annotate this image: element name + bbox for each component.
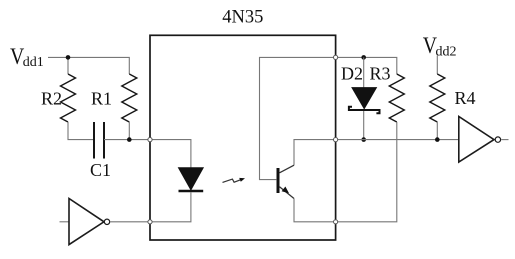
svg-text:D2: D2 (341, 64, 363, 84)
wire U1 output to pin2 (110, 221, 150, 223)
wire D2 cathode lead (363, 111, 365, 140)
pin 2 terminal (148, 220, 152, 224)
diode D2 schottky (349, 88, 380, 114)
node Vdd2 label (423, 33, 457, 60)
wire R2 bottom lead to C1 left plate (68, 122, 94, 140)
junction D2/output rail (361, 137, 366, 142)
wire Vdd2 lead to R4 (436, 56, 438, 75)
svg-text:dd1: dd1 (23, 55, 44, 70)
junction Vdd1/R2 (66, 55, 71, 60)
wire LED cathode to pin2 (150, 192, 191, 222)
wire pin1 to LED anode (150, 140, 191, 168)
wire pin6 rail to R3 top (336, 57, 397, 74)
wire C1 right plate to pin1 (104, 139, 150, 141)
pin 1 terminal (148, 138, 152, 142)
wire R1 bottom lead (128, 122, 130, 140)
svg-text:R1: R1 (91, 89, 112, 109)
pin 6 terminal (334, 55, 338, 59)
pin 5 terminal (334, 138, 338, 142)
LED emitter diode of 4N35 (179, 168, 204, 191)
wire U2 output stub (501, 139, 508, 141)
wire output rail pin5 to inverter U2 (336, 139, 459, 141)
wire R4 bottom lead (436, 122, 438, 140)
pin 4 terminal (334, 220, 338, 224)
IC body 4N35 optocoupler box (150, 35, 336, 240)
svg-text:R4: R4 (455, 88, 476, 108)
junction R1/C1 node (127, 137, 132, 142)
wire emitter to pin4 (294, 199, 336, 222)
resistor R1 (122, 74, 137, 122)
phototransistor Q1 (278, 165, 294, 198)
junction pin6/D2 (361, 55, 366, 60)
inverter U2 (459, 117, 501, 163)
junction R4/output rail (435, 137, 440, 142)
wire Vdd1 rail to R1 top (48, 57, 129, 74)
inverter U1 (69, 199, 110, 245)
wire R2 top lead (67, 57, 69, 74)
wire pin5 to collector (294, 140, 336, 166)
wire R3 bottom to pin4 (336, 122, 397, 222)
resistor R2 (61, 74, 76, 122)
svg-text:R3: R3 (370, 64, 391, 84)
wire D2 anode lead (363, 57, 365, 87)
svg-text:C1: C1 (90, 160, 111, 180)
resistor R3 (389, 74, 404, 122)
svg-text:4N35: 4N35 (222, 8, 263, 28)
node Vdd1 label (10, 43, 44, 70)
svg-text:R2: R2 (41, 89, 62, 109)
capacitor C1 (94, 122, 104, 159)
svg-text:dd2: dd2 (436, 45, 457, 60)
inverter U1 input stub (60, 221, 70, 223)
resistor R4 (430, 74, 445, 122)
light arrow (223, 178, 246, 183)
wire pin6 to base of Q1 (260, 57, 336, 179)
